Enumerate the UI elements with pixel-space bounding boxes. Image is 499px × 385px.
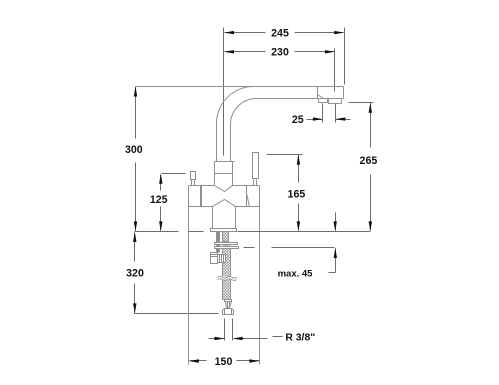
angle valve block detail lines bbox=[211, 255, 218, 257]
dim 150: right extension line (body end continued) bbox=[259, 186, 261, 365]
body tube right diagonal bbox=[247, 194, 250, 207]
svg-text:165: 165 bbox=[288, 188, 306, 200]
dim 230: right extension line (aerator) bbox=[334, 49, 336, 92]
dim 150: dimension line bbox=[190, 360, 260, 362]
dim 245: right extension line (spout tip) bbox=[344, 28, 346, 85]
faucet riser right line bbox=[230, 125, 232, 162]
deck top line bbox=[135, 231, 371, 233]
dim 320: bottom extension line bbox=[135, 313, 219, 315]
body tube right joint bbox=[246, 186, 248, 207]
hose end nut facets bbox=[225, 309, 232, 315]
svg-text:245: 245 bbox=[271, 27, 289, 39]
dim 25: left extension line bbox=[322, 104, 324, 123]
spout end block diagonal bbox=[318, 95, 324, 99]
body tube top line bbox=[189, 185, 260, 187]
body tube bottom line bbox=[189, 206, 260, 208]
mounting bolt rods bbox=[217, 232, 220, 253]
dim 125: top arrowhead bbox=[159, 174, 162, 184]
riser collar joint bbox=[215, 161, 235, 163]
mounting bar upper bbox=[215, 243, 238, 245]
aerator housing bbox=[319, 99, 328, 103]
dim 125: top extension line bbox=[162, 173, 186, 175]
dim 125: bottom arrowhead bbox=[159, 221, 162, 231]
dim 265: top arrowhead bbox=[369, 103, 372, 113]
svg-text:265: 265 bbox=[360, 155, 378, 167]
hose neck taper bbox=[226, 302, 232, 308]
upper column joint line bbox=[215, 173, 233, 175]
mounting bar lower bbox=[215, 247, 239, 249]
faucet riser left line bbox=[216, 125, 218, 162]
dim 25: left leader line bbox=[307, 119, 323, 121]
dim max45: lower leader and arrow bbox=[329, 249, 336, 273]
faucet spout inner arc bbox=[231, 99, 257, 125]
dim 165: top arrowhead bbox=[297, 155, 300, 165]
dim 150: right arrowhead bbox=[249, 359, 259, 362]
dim 320: dimension line bbox=[134, 233, 136, 314]
dim 320: bottom arrowhead bbox=[133, 303, 136, 313]
dim 230: left arrowhead bbox=[224, 50, 234, 53]
threaded stud through deck (hatched) bbox=[223, 232, 229, 242]
dim 265: top extension line bbox=[349, 102, 374, 104]
dim 300: top arrowhead bbox=[134, 87, 137, 97]
hose end nut bbox=[223, 309, 234, 315]
faucet spout top line (with 300 extension) bbox=[136, 86, 344, 88]
dim 265: dimension line bbox=[370, 103, 372, 231]
dim 165: dimension line bbox=[298, 155, 300, 231]
dim 25: right extension line bbox=[335, 104, 337, 123]
svg-text:150: 150 bbox=[215, 356, 233, 368]
hose break squiggle upper bbox=[218, 276, 237, 278]
valve coupling detail lines bbox=[220, 255, 224, 263]
left lever knob bbox=[191, 172, 196, 180]
dim R3/8: left extension line below nut bbox=[224, 319, 226, 341]
svg-text:R 3/8": R 3/8" bbox=[285, 333, 315, 344]
dim 265: bottom arrowhead bbox=[369, 221, 372, 231]
dim 320: top arrowhead bbox=[133, 232, 136, 242]
right lever knob bbox=[253, 153, 259, 179]
svg-text:25: 25 bbox=[292, 114, 304, 126]
cylinder intersection lower V bbox=[213, 200, 236, 207]
dim R3/8: right leader bbox=[234, 338, 268, 340]
hose break squiggle lower bbox=[218, 279, 237, 281]
dim max45: upper leader and arrow bbox=[335, 213, 337, 231]
flexible hose (hatched braid) bbox=[223, 249, 231, 300]
body tube left end cap joint (double line) bbox=[201, 186, 202, 207]
cylinder intersection upper V bbox=[215, 186, 233, 192]
faucet spout bottom line bbox=[257, 98, 344, 100]
left lever stem bbox=[192, 180, 195, 186]
dim 25: right leader line bbox=[336, 119, 351, 121]
svg-text:230: 230 bbox=[271, 47, 289, 59]
svg-text:320: 320 bbox=[126, 267, 144, 279]
dim 300: bottom arrowhead bbox=[134, 221, 137, 231]
dim 245: extension line faucet axis bbox=[223, 28, 225, 156]
svg-text:300: 300 bbox=[125, 144, 143, 156]
dim 230: right arrowhead bbox=[325, 50, 335, 53]
dim R3/8: leader dash to label bbox=[273, 336, 283, 338]
dim 245: dimension line bbox=[225, 32, 344, 34]
dim 150: left extension line (body end continued) bbox=[188, 186, 190, 365]
dim 245: left arrowhead bbox=[224, 31, 234, 34]
angle valve block bbox=[211, 253, 218, 264]
hose break band bbox=[218, 277, 237, 280]
dim 125: dimension line bbox=[160, 175, 162, 231]
hatch sliver between bars bbox=[223, 245, 231, 247]
spout end block right edge bbox=[343, 87, 345, 99]
aerator tip bbox=[329, 99, 342, 104]
dim 25: right arrowhead bbox=[335, 117, 345, 120]
dim 300: dimension line bbox=[135, 87, 137, 231]
lower cylinder sides bbox=[213, 207, 236, 229]
svg-text:max. 45: max. 45 bbox=[278, 268, 314, 279]
dim 165: bottom arrowhead bbox=[297, 221, 300, 231]
dim 150: left arrowhead bbox=[189, 359, 199, 362]
svg-text:125: 125 bbox=[150, 194, 168, 206]
dim 25: left arrowhead bbox=[313, 117, 323, 120]
dim 245: right arrowhead bbox=[334, 31, 344, 34]
faucet spout outer arc bbox=[216, 86, 253, 124]
spout end block left edge bbox=[317, 87, 319, 99]
upper column sides bbox=[215, 162, 233, 186]
base flange bbox=[211, 229, 237, 232]
dim 230: dimension line bbox=[225, 51, 335, 53]
valve coupling bbox=[218, 255, 226, 263]
dim R3/8: right extension line below nut bbox=[232, 319, 234, 341]
hose ferrule bbox=[225, 300, 232, 302]
right lever stem bbox=[254, 180, 257, 186]
deck bottom line bbox=[244, 247, 335, 249]
dim 165: top extension line bbox=[267, 154, 303, 156]
dim R3/8: left leader bbox=[209, 338, 225, 340]
